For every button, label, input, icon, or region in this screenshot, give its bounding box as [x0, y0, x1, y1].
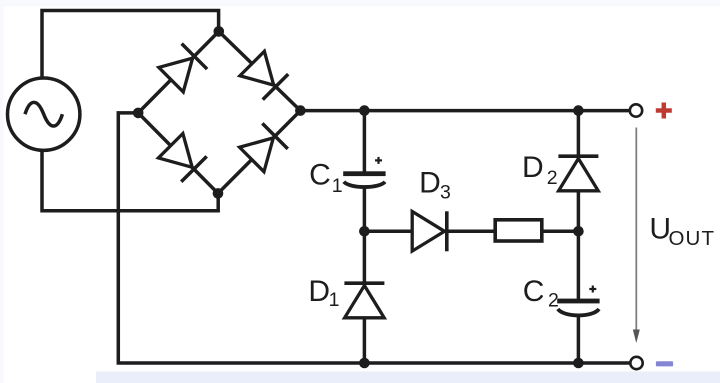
- svg-text:D: D: [308, 275, 330, 308]
- svg-text:D: D: [522, 151, 544, 184]
- node: bridge left: [133, 108, 144, 119]
- diode D1 (pointing up to middle node): [344, 283, 384, 318]
- label plus sign (red): [656, 103, 672, 119]
- terminal: plus output (open circle): [630, 104, 642, 116]
- svg-text:C: C: [309, 159, 331, 192]
- wire: AC source bottom loop to bridge bottom node: [42, 146, 218, 211]
- node: bridge right: [295, 105, 306, 116]
- node: C2 bottom junction: [573, 358, 584, 369]
- node: D2 top junction: [573, 105, 584, 116]
- diode D2 (pointing up to plus rail): [558, 156, 598, 191]
- wire: C2 branch top segment: [577, 231, 581, 299]
- wire: bridge diamond top-left side: [138, 31, 219, 113]
- label minus sign (blue): [656, 361, 673, 366]
- wire: D1 branch top segment: [363, 231, 367, 284]
- wire: D2 branch top segment: [577, 111, 581, 158]
- wire: bridge diamond bottom-right side: [218, 111, 300, 194]
- wire: C1 branch bottom segment: [363, 187, 367, 232]
- svg-text:OUT: OUT: [669, 227, 716, 250]
- node: D2/C2/resistor middle junction: [573, 226, 584, 237]
- terminal: minus output (open circle): [630, 357, 642, 369]
- polarity plus of C2: [589, 286, 596, 293]
- svg-text:2: 2: [548, 289, 559, 311]
- svg-text:3: 3: [440, 181, 451, 203]
- node: bridge bottom: [213, 188, 224, 199]
- wire: C1 branch top segment: [363, 111, 367, 172]
- bridge diode top-left (anode at left node, cathode at top node): [158, 44, 207, 93]
- voltage arrow U_OUT (from + to -): [633, 128, 640, 344]
- wire: bridge left node to long vertical and bottom rail: [118, 113, 630, 363]
- wire: bridge diamond bottom-left side: [138, 113, 218, 193]
- node: C1/D1/D3 middle junction: [359, 226, 370, 237]
- svg-text:1: 1: [332, 175, 343, 197]
- resistor (in middle wire): [495, 220, 542, 241]
- bridge diode bottom-right (anode at bottom node, cathode at right node): [239, 123, 288, 172]
- wire: AC source top loop to bridge top node: [42, 11, 219, 83]
- wire: D1 branch bottom segment: [363, 317, 367, 363]
- bridge diode top-right (anode at top node, cathode at right node): [239, 51, 288, 100]
- wire: bridge diamond top-right side: [219, 31, 301, 110]
- bridge diode bottom-left (anode at left node, cathode at bottom node): [158, 133, 207, 182]
- wire: bridge right node to plus terminal (top positive rail): [300, 109, 629, 113]
- wire: D2 branch bottom segment: [577, 189, 581, 231]
- capacitor C2 (polarized): [557, 299, 599, 316]
- node: C1 top junction: [359, 105, 370, 116]
- AC source: [8, 78, 80, 150]
- wire: C2 branch bottom segment: [577, 316, 581, 364]
- svg-text:C: C: [523, 275, 545, 308]
- capacitor C1 (polarized): [343, 171, 385, 187]
- svg-text:2: 2: [547, 167, 558, 189]
- node: D1 bottom junction: [359, 358, 370, 369]
- svg-text:D: D: [419, 166, 441, 199]
- diode D3 (pointing right in middle wire): [412, 211, 447, 251]
- node: bridge top: [214, 26, 225, 37]
- wire: middle wire from C1/D1 node through D3 and resistor to D2/C2 node: [364, 230, 578, 234]
- polarity plus of C1: [375, 157, 382, 164]
- svg-text:1: 1: [329, 289, 340, 311]
